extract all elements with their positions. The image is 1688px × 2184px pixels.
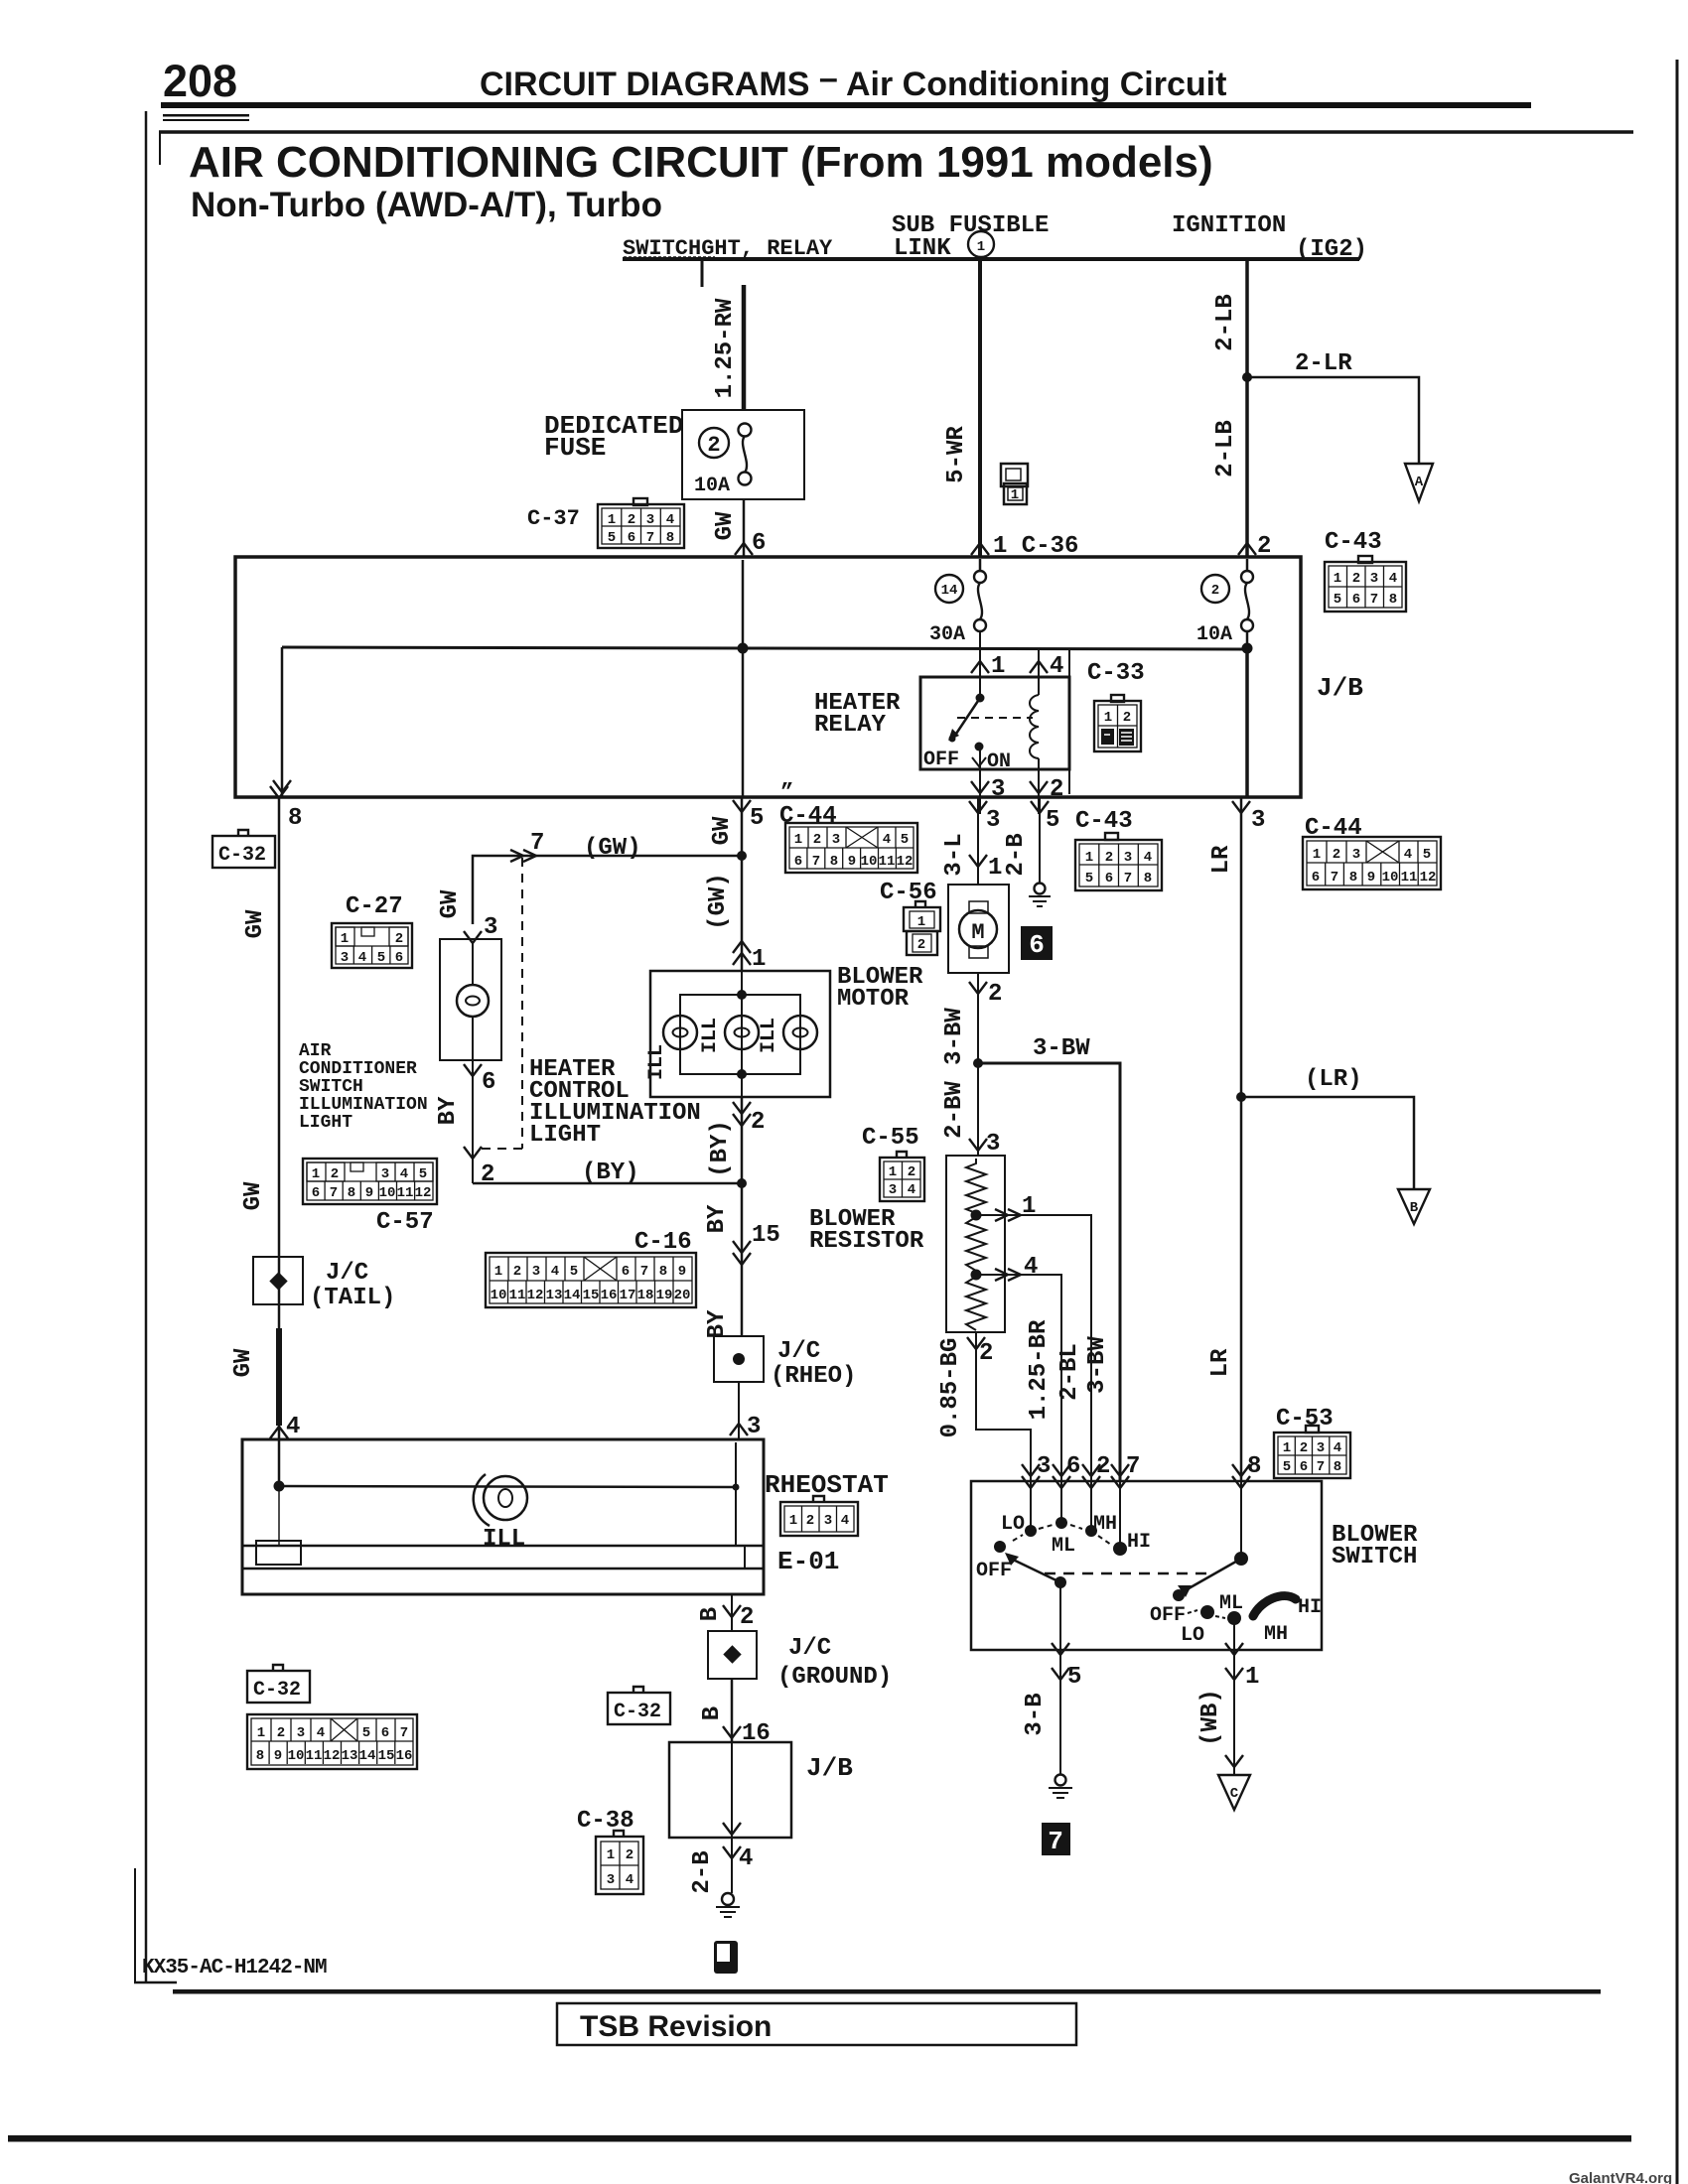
svg-text:SWITCH: SWITCH — [1332, 1544, 1417, 1570]
svg-text:10A: 10A — [1196, 623, 1232, 646]
node fuse2 output — [1246, 631, 1249, 648]
wire GW branch 7 — [473, 856, 742, 924]
heater relay box — [920, 677, 1069, 769]
wire (WB) to arrow C — [1233, 1688, 1235, 1775]
svg-text:ON: ON — [987, 751, 1011, 773]
svg-text:4: 4 — [739, 1845, 753, 1872]
svg-text:ILL: ILL — [645, 1044, 668, 1080]
wire GW pin5 from J/B — [741, 797, 744, 856]
svg-text:3: 3 — [986, 1131, 1000, 1158]
svg-text:2: 2 — [277, 1725, 285, 1741]
svg-text:GW: GW — [240, 1181, 267, 1210]
svg-text:2-BL: 2-BL — [1056, 1343, 1083, 1401]
lamp ILL right — [783, 1016, 817, 1049]
svg-text:LIGHT: LIGHT — [529, 1122, 601, 1149]
blower switch box — [971, 1481, 1322, 1650]
svg-text:J/C: J/C — [326, 1260, 368, 1287]
svg-text:1: 1 — [1085, 850, 1093, 866]
svg-text:8: 8 — [1349, 870, 1357, 886]
svg-text:1: 1 — [341, 931, 349, 947]
svg-text:AIR CONDITIONING CIRCUIT (From: AIR CONDITIONING CIRCUIT (From 1991 mode… — [189, 138, 1213, 187]
rheostat pin3 wire — [735, 1442, 737, 1546]
ac switch illumination lamp — [464, 931, 482, 943]
fuse 14 element 30A — [979, 559, 982, 571]
svg-text:13: 13 — [342, 1748, 358, 1764]
svg-text:6: 6 — [1300, 1459, 1308, 1475]
wire BY below ac lamp — [472, 1060, 474, 1183]
svg-text:3-BW: 3-BW — [941, 1008, 968, 1065]
svg-text:2-BW: 2-BW — [941, 1081, 968, 1139]
dashed gang link — [475, 858, 522, 1149]
arrow B — [1398, 1189, 1430, 1224]
rheostat box — [242, 1439, 764, 1594]
wire GW through J/B to pin 5 — [742, 560, 745, 797]
svg-text:BY: BY — [435, 1096, 462, 1125]
left border foot bracket — [134, 1868, 136, 1983]
svg-text:1: 1 — [977, 239, 985, 255]
switch upper pole contacts — [1030, 1481, 1032, 1531]
wire (BY) below lamps — [741, 1097, 744, 1183]
svg-text:1: 1 — [1313, 847, 1321, 863]
wire 3-BW below motor — [977, 973, 979, 1063]
svg-text:2-LB: 2-LB — [1212, 294, 1239, 351]
wire 2-B to ground — [1039, 797, 1041, 884]
svg-text:2-LR: 2-LR — [1295, 350, 1352, 377]
svg-text:ILL: ILL — [758, 1018, 780, 1053]
wire 1.25-RW — [742, 285, 747, 410]
svg-text:5: 5 — [362, 1725, 370, 1741]
svg-text:5: 5 — [1085, 871, 1093, 887]
svg-text:14: 14 — [359, 1748, 376, 1764]
svg-text:3-BW: 3-BW — [1033, 1035, 1090, 1062]
svg-text:10: 10 — [491, 1288, 507, 1303]
svg-text:7: 7 — [1331, 870, 1338, 886]
svg-text:8: 8 — [1334, 1459, 1341, 1475]
wire stub below SWITCH label — [701, 261, 704, 287]
svg-text:FUSE: FUSE — [544, 433, 606, 463]
svg-text:20: 20 — [674, 1288, 691, 1303]
relay pin 2 out — [1038, 769, 1040, 814]
svg-text:3: 3 — [986, 807, 1000, 834]
svg-text:3: 3 — [824, 1513, 832, 1529]
svg-text:10: 10 — [288, 1748, 305, 1764]
svg-text:7: 7 — [812, 854, 820, 870]
svg-text:2: 2 — [626, 1847, 633, 1863]
arrow A — [1405, 464, 1433, 501]
blower motor M — [969, 901, 988, 913]
wire 2-LB — [1245, 259, 1249, 556]
connector C-32 label 3 — [608, 1687, 670, 1724]
svg-text:11: 11 — [306, 1748, 323, 1764]
svg-text:6: 6 — [395, 950, 403, 966]
fuse 2 element 10A — [1246, 559, 1249, 571]
node lamp bottom — [737, 1069, 747, 1079]
svg-text:BY: BY — [704, 1204, 731, 1233]
svg-text:(GW): (GW) — [584, 835, 641, 862]
svg-text:1: 1 — [607, 1847, 615, 1863]
208 double underline — [163, 114, 249, 117]
resistor elements — [966, 1159, 986, 1213]
svg-text:RESISTOR: RESISTOR — [809, 1228, 924, 1255]
node 3-BW junction — [973, 1058, 983, 1068]
svg-text:12: 12 — [415, 1185, 432, 1201]
svg-text:MH: MH — [1264, 1623, 1288, 1646]
svg-text:3: 3 — [1037, 1453, 1051, 1480]
svg-text:3: 3 — [1370, 571, 1378, 587]
svg-text:6: 6 — [482, 1069, 495, 1096]
svg-text:1: 1 — [1283, 1440, 1291, 1456]
svg-text:7: 7 — [400, 1725, 408, 1741]
svg-text:8: 8 — [1389, 592, 1397, 608]
svg-text:2: 2 — [1333, 847, 1340, 863]
svg-text:9: 9 — [365, 1185, 373, 1201]
svg-text:1: 1 — [1011, 487, 1019, 503]
svg-text:7: 7 — [330, 1185, 338, 1201]
svg-text:ILL: ILL — [699, 1018, 722, 1053]
wire B below rheostat — [731, 1594, 733, 1631]
bottom black bar — [8, 2135, 1631, 2142]
wire coil feed across J/B — [282, 647, 1247, 649]
wire 5-WR — [978, 259, 982, 556]
pin arrow 6 — [735, 543, 753, 555]
svg-text:12: 12 — [527, 1288, 544, 1303]
svg-text:J/C: J/C — [777, 1338, 820, 1365]
svg-text:J/C: J/C — [788, 1635, 831, 1662]
connector C-32 label 2 — [247, 1665, 310, 1703]
relay pin 1 wire — [979, 631, 981, 698]
svg-text:3: 3 — [889, 1182, 897, 1198]
svg-text:4: 4 — [286, 1414, 300, 1440]
svg-text:OFF: OFF — [976, 1560, 1012, 1582]
lamp ILL left — [663, 1016, 697, 1049]
svg-text:3-B: 3-B — [1022, 1693, 1049, 1735]
header thick rule — [161, 102, 1531, 108]
wire LR below J/B — [1240, 797, 1243, 1481]
svg-text:2: 2 — [513, 1264, 521, 1280]
svg-text:3: 3 — [747, 1414, 761, 1440]
svg-text:(GW): (GW) — [705, 873, 732, 930]
node 2-LB/2-LR junction — [1242, 372, 1252, 382]
svg-text:1: 1 — [1022, 1193, 1036, 1220]
fuse 2 circle — [1201, 575, 1229, 603]
svg-text:LIGHT: LIGHT — [299, 1113, 352, 1133]
svg-text:2: 2 — [1300, 1440, 1308, 1456]
badge 6 — [1021, 926, 1053, 960]
svg-text:19: 19 — [656, 1288, 673, 1303]
svg-text:ILL: ILL — [483, 1526, 525, 1553]
svg-text:A: A — [1415, 475, 1424, 490]
wire 3-L to blower motor — [977, 797, 979, 885]
svg-text:LR: LR — [1208, 845, 1235, 874]
svg-text:BY: BY — [704, 1309, 731, 1338]
svg-text:8: 8 — [348, 1185, 355, 1201]
badge 7 — [1042, 1823, 1070, 1855]
svg-text:3: 3 — [1317, 1440, 1325, 1456]
rheostat connector E-01 — [780, 1496, 858, 1536]
svg-text:5: 5 — [1423, 847, 1431, 863]
svg-text:15: 15 — [378, 1748, 395, 1764]
svg-text:1.25-RW: 1.25-RW — [712, 298, 739, 398]
wire 0.85-BG from resistor — [976, 1332, 1031, 1481]
svg-text:B: B — [697, 1607, 724, 1621]
svg-text:LO: LO — [1181, 1624, 1204, 1647]
ground at 2-B — [1035, 884, 1046, 894]
svg-text:GW: GW — [709, 816, 736, 845]
svg-text:2: 2 — [395, 931, 403, 947]
wire B to J/B — [731, 1679, 734, 1742]
svg-text:3-L: 3-L — [941, 833, 968, 876]
svg-text:LR: LR — [1207, 1348, 1234, 1377]
dedicated fuse box — [682, 410, 804, 499]
svg-text:C-32: C-32 — [218, 844, 266, 867]
svg-text:ILLUMINATION: ILLUMINATION — [299, 1095, 428, 1115]
svg-text:6: 6 — [1066, 1453, 1080, 1480]
svg-text:4: 4 — [1334, 1440, 1341, 1456]
svg-text:7: 7 — [530, 830, 544, 857]
svg-text:8: 8 — [666, 530, 674, 546]
svg-text:1.25-BR: 1.25-BR — [1026, 1319, 1053, 1420]
connector C-57 — [303, 1159, 437, 1204]
svg-text:6: 6 — [1029, 930, 1045, 960]
svg-text:2-B: 2-B — [1003, 833, 1030, 876]
wire 2-LR branch — [1247, 377, 1419, 464]
svg-text:4: 4 — [1389, 571, 1397, 587]
svg-text:2: 2 — [331, 1166, 339, 1182]
wire 3-BW branch to switch pin7 — [978, 1063, 1120, 1481]
svg-text:1: 1 — [752, 946, 766, 973]
svg-text:11: 11 — [1401, 870, 1418, 886]
svg-text:1: 1 — [312, 1166, 320, 1182]
svg-text:ML: ML — [1052, 1535, 1075, 1558]
svg-text:6: 6 — [381, 1725, 389, 1741]
svg-text:(RHEO): (RHEO) — [771, 1363, 856, 1390]
svg-text:C-57: C-57 — [376, 1209, 434, 1236]
svg-text:14: 14 — [941, 583, 958, 599]
junction J/C RHEO — [714, 1336, 764, 1382]
svg-text:C: C — [1230, 1786, 1239, 1802]
svg-text:C-44: C-44 — [779, 803, 837, 830]
svg-text:9: 9 — [1367, 870, 1375, 886]
svg-text:TSB Revision: TSB Revision — [580, 2010, 772, 2043]
svg-text:2: 2 — [988, 981, 1002, 1008]
svg-text:4: 4 — [317, 1725, 325, 1741]
svg-text:16: 16 — [601, 1288, 618, 1303]
svg-text:2: 2 — [751, 1109, 765, 1136]
svg-text:4: 4 — [1404, 847, 1412, 863]
svg-text:3: 3 — [646, 512, 654, 528]
svg-text:4: 4 — [883, 832, 891, 848]
svg-text:1: 1 — [257, 1725, 265, 1741]
svg-text:5: 5 — [1067, 1664, 1081, 1691]
svg-text:12: 12 — [897, 854, 914, 870]
svg-text:1: 1 — [1334, 571, 1341, 587]
svg-text:14: 14 — [564, 1288, 581, 1303]
svg-text:RELAY: RELAY — [814, 712, 887, 739]
svg-text:8: 8 — [1247, 1453, 1261, 1480]
svg-text:B: B — [1410, 1200, 1419, 1216]
svg-text:2: 2 — [1352, 571, 1360, 587]
wire 2-BW to resistor — [977, 1063, 979, 1156]
svg-text:2: 2 — [1096, 1453, 1110, 1480]
wire BY to rheostat — [738, 1382, 740, 1439]
node GW tap — [738, 643, 749, 654]
left page border — [145, 111, 148, 1982]
svg-text:CIRCUIT DIAGRAMS – Air Conditi: CIRCUIT DIAGRAMS – Air Conditioning Circ… — [480, 60, 1226, 103]
svg-text:GW: GW — [230, 1348, 257, 1377]
svg-text:2: 2 — [1211, 583, 1219, 599]
switch pin arrows 3 6 2 7 8 — [1022, 1464, 1040, 1488]
wire (GW) down to lamps — [741, 856, 744, 971]
svg-text:E-01: E-01 — [777, 1547, 839, 1576]
svg-text:3: 3 — [832, 832, 840, 848]
svg-text:7: 7 — [646, 530, 654, 546]
page icon — [714, 1941, 738, 1974]
svg-text:3: 3 — [991, 776, 1005, 803]
svg-text:9: 9 — [274, 1748, 282, 1764]
svg-text:7: 7 — [1124, 871, 1132, 887]
svg-text:M: M — [971, 920, 984, 945]
wire GW thick below J/C TAIL — [276, 1328, 282, 1426]
wire BY horizontal to junction — [473, 1182, 742, 1185]
right page border — [1676, 60, 1679, 2184]
svg-text:(TAIL): (TAIL) — [310, 1285, 395, 1311]
svg-text:16: 16 — [396, 1748, 413, 1764]
rheostat wiper wire — [274, 1481, 285, 1492]
svg-text:2: 2 — [628, 512, 635, 528]
svg-text:1: 1 — [789, 1513, 797, 1529]
svg-text:GW: GW — [437, 889, 464, 918]
svg-text:4: 4 — [1144, 850, 1152, 866]
svg-text:C-43: C-43 — [1075, 808, 1133, 835]
svg-text:9: 9 — [848, 854, 856, 870]
diagram top border — [159, 130, 1633, 134]
svg-text:10A: 10A — [694, 475, 730, 497]
svg-text:4: 4 — [1050, 653, 1063, 680]
svg-text:8: 8 — [1144, 871, 1152, 887]
svg-text:J/B: J/B — [1317, 673, 1363, 703]
svg-text:2-LB: 2-LB — [1212, 420, 1239, 478]
svg-text:10: 10 — [1382, 870, 1399, 886]
svg-text:7: 7 — [1048, 1827, 1063, 1856]
svg-text:C-56: C-56 — [880, 880, 937, 906]
pin arrow 1 C-36 — [971, 543, 989, 555]
svg-text:1: 1 — [991, 653, 1005, 680]
svg-text:5: 5 — [1334, 592, 1341, 608]
svg-text:5: 5 — [901, 832, 909, 848]
svg-text:4: 4 — [908, 1182, 915, 1198]
svg-text:GalantVR4.org: GalantVR4.org — [1569, 2170, 1672, 2184]
rheostat dial symbol — [484, 1476, 527, 1520]
svg-text:MOTOR: MOTOR — [837, 986, 910, 1013]
svg-text:8: 8 — [256, 1748, 264, 1764]
svg-text:3: 3 — [1251, 807, 1265, 834]
junction block J/B box — [235, 557, 1301, 797]
fusible link symbol — [1001, 464, 1028, 504]
svg-text:4: 4 — [626, 1872, 633, 1888]
svg-text:5: 5 — [750, 805, 764, 832]
svg-text:2: 2 — [740, 1604, 754, 1631]
svg-text:6: 6 — [1105, 871, 1113, 887]
connector C-32 label 1 — [212, 830, 275, 868]
svg-text:MH: MH — [1093, 1513, 1117, 1536]
svg-text:5-WR: 5-WR — [943, 426, 970, 483]
fusible link circle 1 — [968, 231, 994, 257]
pin arrow 2 C-43 — [1238, 543, 1256, 555]
svg-text:2-B: 2-B — [689, 1850, 716, 1893]
svg-text:11: 11 — [879, 854, 896, 870]
svg-text:3: 3 — [1124, 850, 1132, 866]
svg-text:B: B — [699, 1706, 726, 1720]
svg-text:6: 6 — [794, 854, 802, 870]
svg-text:2: 2 — [707, 433, 720, 458]
arrow C — [1218, 1775, 1250, 1810]
svg-text:208: 208 — [163, 56, 237, 106]
svg-text:7: 7 — [1317, 1459, 1325, 1475]
rheostat element bar — [242, 1545, 764, 1548]
svg-text:5: 5 — [377, 950, 385, 966]
svg-text:7: 7 — [1370, 592, 1378, 608]
node GW junction — [737, 851, 747, 861]
switch shorting bar ML-HI — [1253, 1596, 1296, 1616]
svg-text:0.85-BG: 0.85-BG — [937, 1338, 964, 1438]
svg-text:12: 12 — [1420, 870, 1437, 886]
svg-text:(BY): (BY) — [707, 1120, 734, 1177]
relay pin 4 wire and coil — [1038, 649, 1040, 695]
wire LR inside J/B — [1245, 648, 1249, 797]
svg-text:5: 5 — [1283, 1459, 1291, 1475]
svg-text:6: 6 — [628, 530, 635, 546]
svg-text:5: 5 — [1046, 807, 1059, 834]
svg-text:LO: LO — [1001, 1513, 1025, 1536]
wire 2-B below J/B — [731, 1838, 733, 1893]
relay pin 3 out — [979, 747, 981, 814]
svg-text:1: 1 — [608, 512, 616, 528]
svg-text:HI: HI — [1298, 1596, 1322, 1619]
connector C-32 16pin — [247, 1714, 417, 1769]
svg-text:15: 15 — [752, 1222, 780, 1249]
svg-text:1: 1 — [917, 914, 925, 930]
svg-text:(WB): (WB) — [1197, 1689, 1224, 1746]
svg-text:1: 1 — [794, 832, 802, 848]
svg-text:4: 4 — [1024, 1254, 1038, 1281]
svg-text:8: 8 — [288, 805, 302, 832]
svg-text:3: 3 — [484, 914, 497, 941]
svg-text:1: 1 — [1104, 710, 1112, 726]
junction J/C GROUND — [708, 1631, 757, 1679]
svg-text:10: 10 — [861, 854, 878, 870]
blower motor box — [948, 885, 1009, 973]
svg-text:C-38: C-38 — [577, 1808, 634, 1835]
svg-text:2: 2 — [813, 832, 821, 848]
wire J/B left drop to pin 8 — [281, 647, 284, 797]
node LR to arrow B — [1236, 1092, 1246, 1102]
corner stub — [159, 132, 161, 165]
switch pin1 out — [1233, 1618, 1235, 1688]
junction block J/B lower box — [669, 1742, 791, 1838]
svg-text:SWITCH: SWITCH — [299, 1077, 363, 1097]
svg-text:12: 12 — [324, 1748, 341, 1764]
svg-text:11: 11 — [397, 1185, 414, 1201]
svg-text:3: 3 — [1352, 847, 1360, 863]
svg-text:17: 17 — [620, 1288, 636, 1303]
junction J/C TAIL — [253, 1257, 303, 1304]
svg-text:6: 6 — [752, 530, 766, 557]
svg-text:5: 5 — [419, 1166, 427, 1182]
fuse element — [739, 424, 752, 437]
node BY junction — [737, 1178, 747, 1188]
svg-text:5: 5 — [608, 530, 616, 546]
svg-text:3: 3 — [607, 1872, 615, 1888]
